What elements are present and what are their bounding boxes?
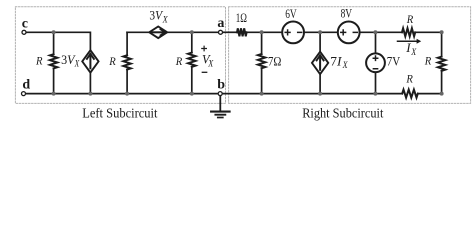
right subcircuit dashed box (229, 7, 471, 104)
svg-text:R: R (406, 72, 414, 86)
resistor R top-right horizontal (402, 28, 415, 36)
wire: horizontal diamond to node a (167, 31, 218, 33)
svg-text:b: b (217, 78, 225, 93)
svg-text:d: d (22, 78, 30, 93)
svg-text:X: X (74, 60, 80, 70)
svg-text:a: a (217, 16, 224, 31)
wire: bottom rail node b to bottom R (222, 93, 402, 95)
svg-text:7Ω: 7Ω (268, 54, 281, 69)
wire: 1ohm to 6V (247, 31, 282, 33)
svg-text:6V: 6V (285, 6, 297, 21)
svg-text:Right Subcircuit: Right Subcircuit (302, 106, 383, 121)
svg-text:7I: 7I (330, 53, 342, 68)
current arrow Ix (398, 39, 422, 44)
resistor R2 vertical (123, 32, 130, 93)
node a (219, 30, 223, 34)
svg-text:X: X (162, 15, 169, 25)
wire: bottom rail after R to right corner (418, 93, 442, 95)
resistor R1 vertical (50, 32, 57, 93)
wire: 8V to top R (360, 31, 402, 33)
wire: 6V to 8V (305, 31, 338, 33)
svg-text:1Ω: 1Ω (236, 10, 247, 25)
svg-text:R: R (175, 54, 183, 68)
svg-text:X: X (342, 61, 349, 71)
svg-text:c: c (22, 16, 28, 31)
terminal d (22, 92, 26, 96)
wire: top R to top-right corner down (415, 32, 441, 56)
svg-text:R: R (35, 54, 43, 68)
resistor R bottom horizontal (402, 90, 418, 98)
dependent source D1 3Vx diamond (82, 50, 98, 93)
resistor R3 vertical (Vx) (188, 32, 195, 93)
node b (218, 92, 222, 96)
junction dots (52, 30, 444, 95)
wire: right R lower lead (441, 71, 443, 94)
terminal c (22, 30, 26, 34)
dependent source 7Ix diamond (312, 32, 328, 93)
resistor 7ohm vertical (258, 32, 265, 93)
left subcircuit dashed box (15, 7, 225, 104)
svg-text:X: X (410, 48, 417, 58)
source 6V (282, 22, 304, 44)
ground (211, 96, 230, 118)
svg-text:Left Subcircuit: Left Subcircuit (82, 106, 158, 121)
source 7V (366, 32, 385, 93)
svg-text:R: R (406, 12, 414, 26)
wire: node a to 1ohm (223, 31, 237, 33)
label +Vx- (202, 46, 207, 51)
svg-text:R: R (108, 54, 116, 68)
source 8V (338, 22, 360, 44)
svg-text:8V: 8V (341, 6, 353, 21)
wire: top rail R2 corner to horizontal diamond (127, 31, 149, 33)
wire: bottom rail d to node b (26, 93, 218, 95)
resistor 1ohm horizontal (237, 28, 247, 36)
svg-text:7V: 7V (387, 54, 401, 69)
dependent source D2 3Vx horizontal diamond (149, 27, 167, 39)
svg-text:R: R (424, 54, 432, 68)
wire: top rail c to diamond corner (26, 32, 90, 50)
svg-text:X: X (207, 59, 214, 69)
resistor R right vertical (438, 57, 445, 71)
